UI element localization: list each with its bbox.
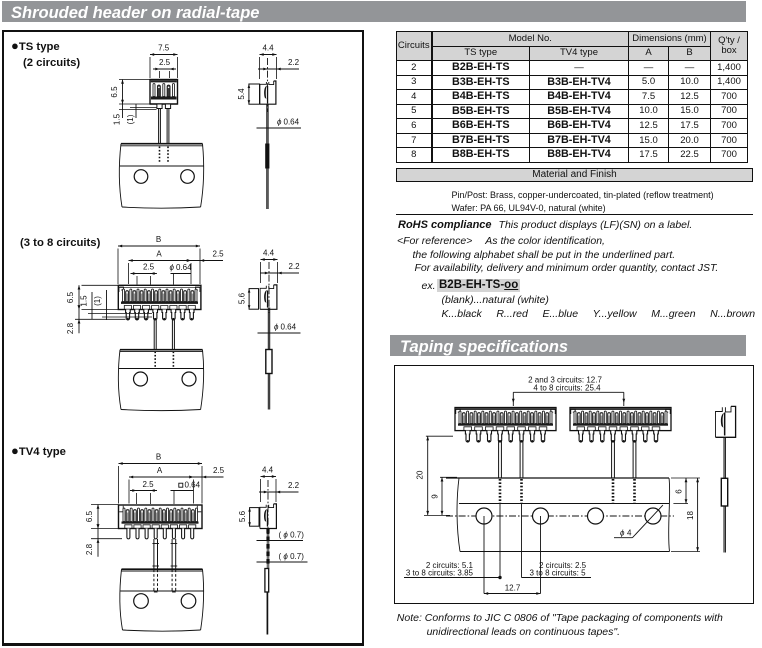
model number table [396,31,748,163]
side body 3-8ckt [260,285,277,309]
svg-text:2.5: 2.5 [213,250,225,259]
right lead distance labels [522,561,592,578]
svg-text:2.5: 2.5 [159,58,171,67]
svg-text:20: 20 [416,470,425,479]
leads front 2ckt [159,109,169,144]
svg-text:0.64: 0.64 [284,118,300,127]
side tape segment TV4 [265,569,269,593]
svg-text:4: 4 [627,529,632,538]
separator rule [396,214,753,215]
svg-text:3 to 8 circuits: 5: 3 to 8 circuits: 5 [530,569,587,578]
3-8ckt header body front [118,285,201,309]
dim (phi 0.7) lower [257,552,308,562]
svg-text:18: 18 [686,511,695,520]
svg-text:4.4: 4.4 [262,466,274,475]
label 2 circuits [23,57,80,69]
taping tape band [446,478,670,552]
material text [452,189,714,214]
dim 6.5 (3-8ckt) [66,285,118,309]
latch bump + dim 5.6 (TV4) [238,508,259,527]
long leads TV4 [152,539,177,569]
dim (phi 0.7) upper [257,531,305,541]
dim A and 2.5 (TV4) [129,466,225,504]
leads dashed in tape TV4 [154,570,176,593]
taping center line [446,515,674,517]
side tape segment 3-8ckt [266,350,272,374]
TV4 header body front [119,505,203,529]
svg-text:2.8: 2.8 [66,322,75,334]
label 3 to 8 circuits [20,237,100,249]
svg-text:2.2: 2.2 [289,262,301,271]
taping connector right [570,408,671,443]
svg-text:(1): (1) [93,296,102,306]
svg-text:2.2: 2.2 [288,481,300,490]
TS side body [260,81,276,104]
dim B (TV4) [119,453,203,504]
side dim 2.2 [258,58,300,70]
dim phi 0.64 front [170,263,193,285]
TS 2-circuit header body front [150,80,178,105]
taping side view body [716,406,736,437]
svg-text:B: B [156,453,161,462]
svg-text:4 to 8 circuits: 25.4: 4 to 8 circuits: 25.4 [533,384,601,393]
dim 12.7 bottom [484,584,541,595]
svg-text:1.5: 1.5 [80,295,89,307]
taping leads right [612,440,636,478]
center line side 3-8ckt [268,262,270,313]
side lead bottom TV4 [266,592,268,635]
svg-text:2.8: 2.8 [85,543,94,555]
straight pins TV4 [127,529,194,539]
sprocket hole left TV4 [134,594,149,609]
dim 6.5 (TV4) [85,505,119,529]
latch bump + dim 5.4 [237,84,260,104]
long leads 3-8ckt [154,319,174,350]
side dim 2.2 (3-8) [260,262,300,274]
svg-text:7.5: 7.5 [158,44,170,53]
svg-text:2.5: 2.5 [142,480,154,489]
svg-text:ɸ: ɸ [274,323,279,332]
side dim 4.4 (3-8) [261,249,278,284]
svg-text:6.5: 6.5 [110,86,119,98]
note [397,612,723,624]
svg-text:6: 6 [675,489,684,494]
svg-text:ɸ: ɸ [170,263,175,272]
sprocket hole right TV4 [181,594,196,609]
leads dotted in tape 3-8ckt [155,352,173,369]
side dim 4.4 [260,44,277,80]
svg-text:(1): (1) [126,114,135,124]
sprocket hole right 2ckt [181,170,195,184]
svg-text:A: A [157,466,163,475]
segmented lead TV4 side [266,529,269,569]
svg-text:2.2: 2.2 [288,58,300,67]
label TS type [11,38,60,53]
left drawings box [2,30,364,646]
dim 2.5 pitch [131,263,157,285]
dim phi 0.64 side (3-8) [258,323,301,334]
svg-text:0.64: 0.64 [281,323,297,332]
dim 18 [671,478,700,552]
RoHS text [398,219,692,231]
dim A and 2.5 [129,250,225,285]
side tape segment 2ckt [265,144,269,169]
pin bullets 3-8ckt [126,310,194,321]
taping connector left [455,408,556,443]
svg-text:12.7: 12.7 [505,584,521,593]
dim 1.5 and (1) [113,104,157,125]
leads dotted in tape 2ckt [160,147,169,164]
center line side TV4 [267,480,269,534]
svg-text:4.4: 4.4 [262,44,274,53]
sprocket hole left 3-8ckt [134,372,148,386]
svg-text:3 to 8 circuits: 3.85: 3 to 8 circuits: 3.85 [406,569,474,578]
side lead 2ckt [267,105,268,210]
svg-text:ɸ: ɸ [620,529,625,538]
taping specifications bar [390,335,746,356]
page title bar [2,1,746,22]
svg-text:5.4: 5.4 [237,88,246,100]
svg-text:0.64: 0.64 [185,481,201,490]
svg-text:5.6: 5.6 [238,292,247,304]
material and finish bar [396,168,753,182]
taping leads left dotted [500,479,522,504]
dim 7.5 [150,44,178,79]
radial tape strip 3-8ckt [118,350,203,411]
taping box [394,365,754,604]
dim 6 [673,478,688,504]
center line side 2ckt [267,58,269,112]
svg-text:0.64: 0.64 [176,263,192,272]
taping side lead [724,438,725,553]
dim 9 [431,477,458,515]
dim 2.5 pitch (TV4) [130,480,157,504]
taping pitch dim line [512,392,625,406]
taping leads left [499,440,523,478]
sprocket hole left 2ckt [134,170,148,184]
dim B [118,235,200,284]
svg-text:ɸ: ɸ [277,118,282,127]
sprocket hole right 3-8ckt [182,372,196,386]
latch bump + dim 5.6 (3-8) [238,289,259,310]
side body TV4 [260,504,277,529]
dim 6.5 left [110,80,150,105]
svg-text:6.5: 6.5 [85,510,94,522]
side dim 4.4 (TV4) [261,466,277,503]
taping leads right dotted [613,479,635,504]
dim phi 0.64 side [257,118,302,129]
svg-text:1.5: 1.5 [113,113,122,125]
dim 2.8 (TV4) [85,524,122,556]
radial tape strip TV4 [120,569,204,631]
svg-text:2.5: 2.5 [213,466,225,475]
left lead distance labels [404,561,502,579]
pin shoulders 2ckt [157,104,171,109]
bottom reference verticals [484,504,541,594]
svg-text:2.5: 2.5 [143,263,155,272]
taping sprocket holes [476,508,661,524]
svg-text:A: A [156,250,162,259]
svg-text:9: 9 [431,494,440,499]
dim 20 [416,436,454,515]
radial tape strip 2ckt [119,144,203,208]
example part number [437,279,520,292]
side dim 2.2 (TV4) [259,481,300,493]
phi 4 leader [614,505,663,538]
svg-text:6.5: 6.5 [66,291,75,303]
svg-text:5.6: 5.6 [238,510,247,522]
taping side tape segment [721,478,727,506]
svg-text:4.4: 4.4 [263,249,275,258]
svg-text:( ɸ 0.7): ( ɸ 0.7) [279,552,305,561]
svg-text:B: B [156,235,161,244]
dim square 0.64 (TV4) [171,481,201,505]
dim 2.5 [153,58,176,78]
label TV4 type [11,443,66,458]
side lead 3-8ckt [268,308,269,410]
svg-text:( ɸ 0.7): ( ɸ 0.7) [279,531,305,540]
dims 1.5 (1) 2.8 (3-8ckt) [66,290,152,334]
